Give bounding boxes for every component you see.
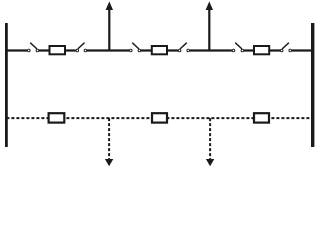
switch S3 (disconnector, blade up-left)	[130, 43, 141, 52]
box D1 on dashed tie line	[49, 113, 65, 122]
switch S2 (disconnector, blade up-right)	[76, 43, 87, 52]
switch S5 (disconnector, blade up-left)	[232, 43, 244, 52]
busbar: left vertical bus	[5, 23, 8, 147]
switch S4 (disconnector, blade up-right)	[178, 43, 189, 52]
breaker B1	[50, 46, 66, 54]
wire: segment from switch S2 through node N1 to switch S3	[87, 49, 129, 51]
wire: segment from switch S1 through breaker B1 to switch S2	[39, 49, 76, 51]
wire: bottom dashed tie line from left bus to right bus	[6, 117, 312, 119]
wire: segment from switch S4 through node N2 to switch S5	[190, 49, 232, 51]
wire: segment from switch S3 through breaker B2 to switch S4	[141, 49, 178, 51]
feeder arrow up at node N2	[206, 1, 213, 50]
wire: segment from switch S5 through breaker B3 to switch S6	[244, 49, 280, 51]
box D2 on dashed tie line	[152, 113, 167, 122]
feeder arrow up at node N1	[106, 1, 113, 50]
breaker B3	[254, 46, 269, 54]
planned feeder arrow down (dashed) at node N2	[206, 118, 214, 166]
wire: segment from switch S6 to right bus	[292, 49, 313, 51]
busbar: right vertical bus	[311, 23, 314, 147]
breaker B2	[152, 46, 167, 54]
switch S1 (disconnector, blade up-left)	[28, 43, 39, 52]
planned feeder arrow down (dashed) at node N1	[105, 118, 113, 166]
wire: top feeder line segment from left bus to switch S1	[6, 49, 27, 51]
box D3 on dashed tie line	[254, 113, 269, 122]
switch S6 (disconnector, blade up-right)	[280, 43, 291, 52]
